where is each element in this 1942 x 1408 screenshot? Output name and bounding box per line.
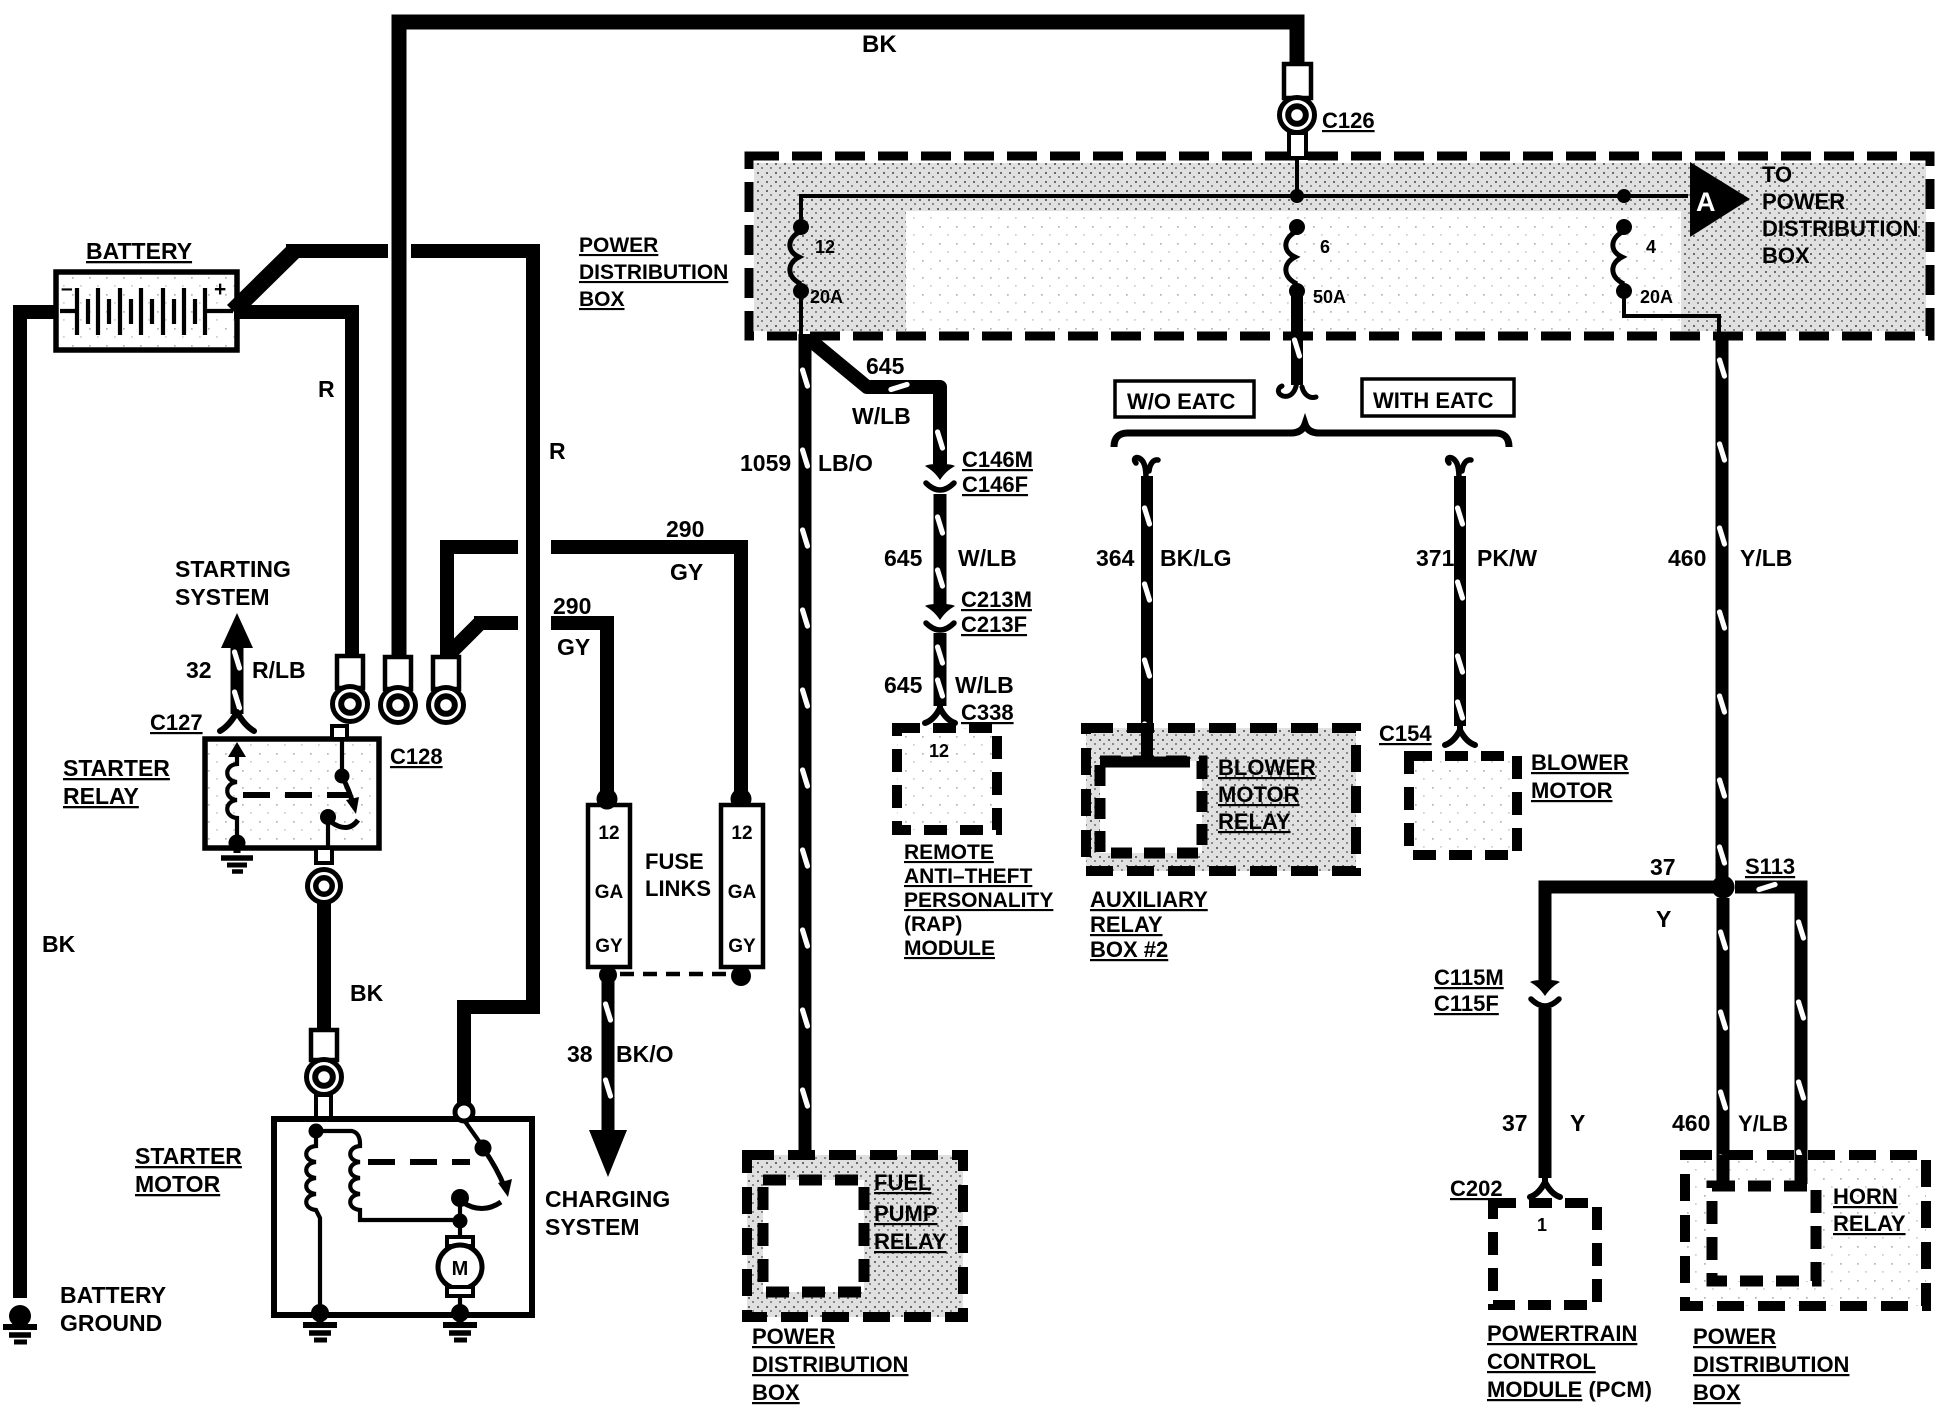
wire 645 W/LB second segment [934, 494, 945, 605]
wire 290 GY (lower) from terminal to left fuse link [450, 622, 481, 653]
svg-text:12: 12 [929, 741, 949, 761]
relay internal dashed link [243, 792, 352, 798]
label POWER DISTRIBUTION BOX (fuel pump) [752, 1324, 908, 1405]
svg-text:C154: C154 [1379, 721, 1432, 746]
label BLOWER MOTOR RELAY [1218, 755, 1316, 834]
node S113 [1712, 876, 1735, 899]
svg-text:38: 38 [567, 1041, 593, 1067]
svg-text:PERSONALITY: PERSONALITY [904, 889, 1053, 912]
node fuse link junction dots and dashed tie [599, 966, 617, 984]
fuse link right box [721, 805, 763, 967]
svg-text:C127: C127 [150, 710, 203, 735]
wire 37 Y from S113 to C115 [1545, 887, 1716, 980]
connector C338 fork [925, 702, 955, 723]
svg-text:FUEL: FUEL [874, 1170, 931, 1195]
wire 460 Y/LB from fuse 4 down to S113 [1716, 336, 1727, 880]
svg-text:4: 4 [1646, 237, 1656, 257]
svg-text:C146M: C146M [962, 447, 1033, 472]
svg-text:37: 37 [1650, 854, 1676, 880]
label WITH EATC [1362, 379, 1514, 416]
svg-text:C115F: C115F [1434, 991, 1499, 1016]
svg-text:M: M [452, 1258, 469, 1280]
svg-text:R: R [318, 376, 335, 402]
wire 371 PK/W to blower motor [1448, 457, 1471, 479]
wire 364 BK/LG to blower motor relay [1135, 457, 1158, 479]
relay top pin stub [332, 726, 347, 739]
fuel pump relay outer box (power distribution box) [747, 1155, 963, 1317]
svg-text:Y: Y [1656, 906, 1671, 932]
svg-text:MODULE: MODULE [904, 937, 995, 960]
svg-text:DISTRIBUTION: DISTRIBUTION [579, 261, 728, 284]
node junction at C126 [1290, 189, 1304, 203]
svg-text:BK/LG: BK/LG [1160, 545, 1232, 571]
svg-text:C126: C126 [1322, 108, 1375, 133]
svg-text:W/LB: W/LB [852, 403, 911, 429]
svg-text:GA: GA [728, 882, 757, 903]
svg-text:WITH EATC: WITH EATC [1373, 388, 1494, 413]
label CHARGING SYSTEM [545, 1186, 670, 1240]
svg-text:W/LB: W/LB [958, 545, 1017, 571]
svg-text:GY: GY [728, 936, 756, 957]
svg-text:C146F: C146F [962, 472, 1028, 497]
svg-text:–: – [61, 277, 73, 300]
terminal ring below relay [308, 870, 341, 903]
svg-text:MOTOR: MOTOR [135, 1171, 221, 1197]
label STARTER MOTOR [135, 1143, 242, 1197]
fuel pump relay inner box [763, 1180, 864, 1292]
svg-text:POWERTRAIN: POWERTRAIN [1487, 1321, 1637, 1346]
wire 364 end bar over boxes [1141, 728, 1153, 757]
wire 645 W/LB branch from fuse 12 [809, 339, 940, 464]
svg-text:BK/O: BK/O [616, 1041, 674, 1067]
wire internal bus line [801, 196, 1688, 224]
svg-text:STARTING: STARTING [175, 556, 291, 582]
label HORN RELAY [1833, 1184, 1906, 1236]
label POWER DISTRIBUTION BOX (top-left) [579, 234, 728, 311]
svg-text:TO: TO [1762, 162, 1792, 187]
svg-text:R: R [549, 438, 566, 464]
motor M [447, 1237, 473, 1246]
svg-text:BOX: BOX [1693, 1380, 1741, 1405]
label FUEL PUMP RELAY [874, 1170, 947, 1254]
svg-text:R/LB: R/LB [252, 657, 306, 683]
svg-text:(RAP): (RAP) [904, 913, 962, 936]
fuse 12 20A [790, 219, 809, 299]
svg-text:GY: GY [557, 634, 590, 660]
label BLOWER MOTOR [1531, 750, 1629, 803]
svg-text:RELAY: RELAY [1218, 809, 1291, 834]
svg-text:RELAY: RELAY [874, 1229, 947, 1254]
svg-text:FUSE: FUSE [645, 849, 704, 874]
blower motor box [1409, 756, 1517, 855]
svg-text:LB/O: LB/O [818, 450, 873, 476]
svg-text:A: A [1696, 187, 1716, 217]
svg-text:12: 12 [598, 823, 619, 844]
svg-text:Y: Y [1570, 1110, 1585, 1136]
relay coil [227, 742, 246, 841]
svg-text:ANTI–THEFT: ANTI–THEFT [904, 865, 1033, 888]
label REMOTE ANTI-THEFT PERSONALITY (RAP) MODULE [904, 841, 1053, 960]
battery BT1 [56, 272, 237, 350]
svg-text:Y/LB: Y/LB [1740, 545, 1792, 571]
svg-text:POWER: POWER [1762, 189, 1845, 214]
svg-text:C213F: C213F [961, 612, 1027, 637]
horn relay power distribution box outer [1685, 1155, 1926, 1306]
svg-text:C128: C128 [390, 744, 443, 769]
wire battery negative BK to ground [20, 312, 58, 1298]
label STARTING SYSTEM [175, 556, 291, 610]
label POWER DISTRIBUTION BOX (horn) [1693, 1324, 1849, 1405]
svg-text:BATTERY: BATTERY [60, 1282, 166, 1308]
relay coil ground [221, 835, 253, 872]
wire R feed over BK, down to starter motor solenoid [411, 251, 533, 1104]
svg-text:GROUND: GROUND [60, 1310, 162, 1336]
svg-text:32: 32 [186, 657, 212, 683]
svg-text:645: 645 [866, 353, 905, 379]
svg-text:W/O EATC: W/O EATC [1127, 389, 1235, 414]
connector C115M C115F [1530, 980, 1560, 1006]
svg-text:371: 371 [1416, 545, 1455, 571]
svg-text:DISTRIBUTION: DISTRIBUTION [1693, 1352, 1849, 1377]
terminal ring at starter motor [307, 1030, 342, 1118]
wire 460 Y/LB below S113 to horn relay [1717, 898, 1728, 1183]
wire 460 Y/LB right branch to horn relay [1735, 881, 1807, 1183]
svg-text:STARTER: STARTER [63, 755, 170, 781]
svg-text:C338: C338 [961, 700, 1014, 725]
wire 37 Y to PCM [1539, 1008, 1552, 1178]
svg-text:12: 12 [731, 823, 752, 844]
powertrain control module box [1493, 1203, 1597, 1305]
connector C202 fork [1530, 1176, 1560, 1197]
svg-text:C213M: C213M [961, 587, 1032, 612]
power distribution box shaded interior [754, 161, 1926, 332]
relay bottom pin stub [316, 848, 332, 863]
svg-text:LINKS: LINKS [645, 876, 711, 901]
battery ground [3, 1305, 37, 1342]
svg-text:S113: S113 [1745, 854, 1795, 879]
relay switch [320, 739, 359, 847]
svg-text:50A: 50A [1313, 287, 1346, 307]
svg-text:20A: 20A [1640, 287, 1673, 307]
svg-text:460: 460 [1668, 545, 1706, 571]
svg-text:364: 364 [1096, 545, 1135, 571]
svg-text:BOX #2: BOX #2 [1090, 937, 1168, 962]
svg-text:PUMP: PUMP [874, 1201, 938, 1226]
fuse 6 50A [1286, 219, 1305, 299]
svg-text:DISTRIBUTION: DISTRIBUTION [1762, 216, 1918, 241]
power distribution box border [749, 156, 1930, 336]
svg-text:W/LB: W/LB [955, 672, 1014, 698]
svg-text:BATTERY: BATTERY [86, 238, 192, 264]
label W/O EATC [1115, 381, 1254, 417]
auxiliary relay box #2 outer [1086, 728, 1356, 871]
fuse 4 20A [1613, 219, 1632, 299]
label BATTERY GROUND [60, 1282, 166, 1336]
connector C146M C146F [925, 464, 955, 490]
svg-text:MOTOR: MOTOR [1218, 782, 1300, 807]
svg-text:AUXILIARY: AUXILIARY [1090, 887, 1208, 912]
svg-text:BOX: BOX [752, 1380, 800, 1405]
svg-text:37: 37 [1502, 1110, 1528, 1136]
svg-text:PK/W: PK/W [1477, 545, 1537, 571]
svg-text:CONTROL: CONTROL [1487, 1349, 1596, 1374]
starter relay K1 box [205, 739, 379, 848]
brace under EATC options [1114, 424, 1509, 447]
svg-text:GA: GA [595, 882, 624, 903]
svg-text:MODULE (PCM): MODULE (PCM) [1487, 1377, 1652, 1402]
svg-text:290: 290 [553, 593, 591, 619]
svg-text:12: 12 [815, 237, 835, 257]
svg-text:GY: GY [670, 559, 703, 585]
svg-text:20A: 20A [810, 287, 843, 307]
svg-text:MOTOR: MOTOR [1531, 778, 1613, 803]
starter motor ground (right) [443, 1304, 477, 1340]
svg-text:BOX: BOX [579, 288, 625, 311]
svg-text:RELAY: RELAY [63, 783, 139, 809]
starter motor internals [306, 1120, 512, 1311]
node A arrow to power distribution box [1690, 162, 1750, 237]
starter solenoid terminal circle [455, 1103, 473, 1121]
horn relay inner box [1712, 1186, 1816, 1281]
svg-text:BLOWER: BLOWER [1218, 755, 1316, 780]
fuse link left box [588, 805, 630, 967]
svg-text:SYSTEM: SYSTEM [175, 584, 270, 610]
svg-text:RELAY: RELAY [1090, 912, 1163, 937]
svg-text:6: 6 [1320, 237, 1330, 257]
svg-text:BLOWER: BLOWER [1531, 750, 1629, 775]
terminal ring 1 [333, 656, 368, 722]
svg-text:BK: BK [862, 31, 897, 58]
connector C213M C213F [925, 604, 955, 630]
wire BK top run [399, 22, 1297, 660]
svg-text:290: 290 [666, 516, 704, 542]
svg-text:GY: GY [595, 936, 623, 957]
connector C127 arrow 32 R/LB to starting system [220, 613, 254, 731]
svg-text:POWER: POWER [752, 1324, 835, 1349]
wire battery positive R down to starter relay terminal [234, 312, 352, 656]
wire 6 50A output with hooked end [1291, 295, 1303, 385]
svg-text:+: + [214, 278, 226, 301]
svg-text:SYSTEM: SYSTEM [545, 1214, 640, 1240]
starter motor box [274, 1119, 532, 1315]
wire 38 BK/O to charging system [589, 975, 627, 1177]
wire 290 GY (upper) from terminal to right fuse link [447, 547, 518, 660]
svg-text:BK: BK [42, 931, 76, 957]
wire from fuse 12 to box bottom [799, 295, 803, 336]
svg-text:CHARGING: CHARGING [545, 1186, 670, 1212]
node junction at fuse 4 [1617, 189, 1631, 203]
svg-text:POWER: POWER [1693, 1324, 1776, 1349]
label FUSE LINKS [645, 849, 711, 901]
connector C126 ring terminal [1280, 64, 1315, 196]
connector C154 fork [1445, 724, 1475, 745]
wire BK relay to starter motor [317, 901, 331, 1032]
wire 645 W/LB third segment [934, 633, 945, 706]
wire from fuse 4 right and down [1624, 295, 1719, 334]
label STARTER RELAY [63, 755, 170, 809]
svg-text:HORN: HORN [1833, 1184, 1898, 1209]
svg-text:Y/LB: Y/LB [1738, 1111, 1788, 1136]
svg-text:460: 460 [1672, 1110, 1710, 1136]
label AUXILIARY RELAY BOX #2 [1090, 887, 1208, 962]
terminal ring 3 [429, 657, 464, 723]
svg-text:RELAY: RELAY [1833, 1211, 1906, 1236]
svg-text:BOX: BOX [1762, 243, 1810, 268]
wires into horn relay (over box fill) [1717, 1155, 1730, 1184]
svg-text:1: 1 [1537, 1215, 1547, 1235]
RAP module box [897, 728, 997, 830]
svg-text:DISTRIBUTION: DISTRIBUTION [752, 1352, 908, 1377]
svg-text:645: 645 [884, 545, 923, 571]
terminal ring 2 [381, 657, 416, 723]
label POWERTRAIN CONTROL MODULE (PCM) [1487, 1321, 1652, 1402]
svg-text:1059: 1059 [740, 450, 791, 476]
svg-text:645: 645 [884, 672, 923, 698]
starter motor ground (left) [303, 1304, 337, 1340]
svg-text:REMOTE: REMOTE [904, 841, 994, 864]
wire battery positive diagonal up to R feed [233, 252, 293, 311]
svg-text:POWER: POWER [579, 234, 658, 257]
svg-text:STARTER: STARTER [135, 1143, 242, 1169]
svg-text:C115M: C115M [1434, 965, 1504, 990]
svg-text:BK: BK [350, 980, 384, 1006]
svg-text:C202: C202 [1450, 1176, 1503, 1201]
wire 1059 LB/O [799, 334, 810, 1183]
blower motor relay inner box [1100, 761, 1202, 853]
